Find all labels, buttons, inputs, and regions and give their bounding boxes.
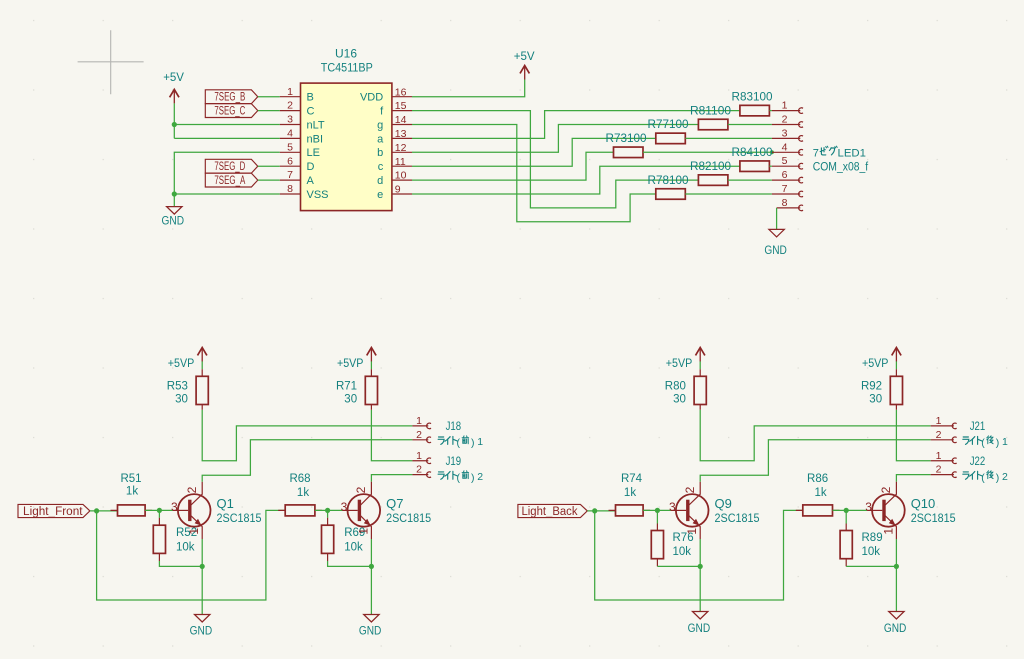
svg-text:+5VP: +5VP: [337, 356, 364, 370]
svg-text:d: d: [377, 175, 383, 187]
power +5VP (R53): [168, 348, 207, 371]
ground (Q1): [190, 615, 213, 638]
wire R74 to Q9 base: [643, 509, 671, 511]
wire Q1 emitter to GND: [201, 539, 203, 615]
svg-text:R80: R80: [665, 381, 686, 393]
wire R68 to Q7 base: [315, 509, 343, 511]
svg-text:1: 1: [1002, 436, 1008, 448]
connector J22 value (Japanese light-back 2): [963, 471, 1008, 484]
junction Light_Front node: [94, 508, 99, 513]
svg-text:R92: R92: [861, 381, 882, 393]
svg-text:GND: GND: [884, 623, 907, 635]
junction Q10 emitter: [894, 564, 899, 569]
junction Q1 emitter: [200, 564, 205, 569]
svg-text:R81100: R81100: [690, 105, 731, 117]
svg-text:+5V: +5V: [514, 49, 535, 63]
svg-text:LED1: LED1: [838, 147, 867, 159]
U16 pin 16 (VDD): [360, 86, 412, 103]
connector J21 pin 2: [931, 429, 957, 443]
resistor R80 30: [699, 361, 701, 412]
wire Light_Back bus to R86: [595, 510, 803, 600]
svg-text:30: 30: [673, 393, 686, 405]
svg-text:Light_Front: Light_Front: [23, 506, 83, 518]
svg-text:e: e: [377, 189, 383, 201]
wire R52 branch: [158, 510, 160, 517]
connector J19 pin 2: [412, 464, 431, 478]
wire R89 to emitter row: [846, 565, 896, 567]
resistor R82 value 100: [690, 161, 731, 185]
svg-text:7SEG_A: 7SEG_A: [214, 175, 245, 187]
svg-text:1: 1: [477, 436, 483, 448]
svg-text:Q10: Q10: [911, 496, 936, 511]
svg-text:1k: 1k: [126, 486, 138, 498]
svg-text:2: 2: [936, 464, 942, 476]
wire R86 to Q10 base: [833, 509, 868, 511]
svg-text:R86: R86: [807, 473, 828, 485]
svg-text:7SEG_B: 7SEG_B: [214, 91, 245, 103]
svg-text:16: 16: [395, 86, 407, 98]
svg-text:GND: GND: [764, 245, 787, 257]
svg-text:TC4511BP: TC4511BP: [321, 63, 373, 75]
svg-text:8: 8: [287, 183, 293, 195]
svg-text:R78100: R78100: [648, 175, 689, 187]
svg-text:7: 7: [287, 169, 293, 181]
svg-text:J21: J21: [970, 419, 986, 433]
U16 pin 6 (D): [280, 155, 315, 173]
svg-text:2: 2: [477, 471, 483, 483]
global label Light_Front: [18, 504, 90, 517]
wire R78 to conn pin7: [685, 193, 772, 195]
svg-text:3: 3: [287, 114, 293, 126]
connector J21 value (Japanese light-back 1): [963, 436, 1008, 449]
resistor R89 10k: [840, 524, 883, 567]
connector J21 pin 1: [931, 415, 957, 429]
wire R82 to conn pin6: [728, 179, 772, 181]
svg-text:D: D: [307, 161, 315, 173]
wire LE/VSS to GND: [174, 152, 279, 206]
ground (Q10): [884, 612, 907, 635]
svg-text:2SC1815: 2SC1815: [386, 511, 431, 525]
wire Light_Back to R74: [587, 510, 615, 512]
svg-text:1: 1: [416, 415, 422, 427]
svg-text:A: A: [307, 175, 315, 187]
resistor R92 30: [895, 361, 897, 412]
svg-text:1k: 1k: [297, 487, 309, 499]
wire Q10 emitter to GND: [895, 539, 897, 612]
global label 7SEG_B: [205, 90, 257, 104]
ground (Q9): [688, 612, 711, 635]
svg-text:): ): [471, 437, 475, 449]
wire Q10 collector to J22 pin2: [896, 475, 930, 482]
U16 pin 12 (b): [377, 142, 412, 159]
junction Light_Back node: [592, 508, 597, 513]
power +5VP (R80): [666, 348, 705, 371]
wire R51 to Q1 base: [145, 509, 173, 511]
junction R74/R76: [655, 508, 660, 513]
U16 pin 10 (d): [377, 170, 412, 187]
junction R51/R52: [157, 508, 162, 513]
svg-text:2SC1815: 2SC1815: [217, 511, 262, 525]
svg-text:GND: GND: [359, 625, 382, 637]
connector J19 pin 1: [412, 450, 431, 464]
svg-text:COM_x08_f: COM_x08_f: [813, 162, 869, 174]
svg-text:30: 30: [344, 393, 357, 405]
svg-text:4: 4: [287, 128, 293, 140]
wire R89 branch: [845, 510, 847, 523]
svg-text:+5VP: +5VP: [862, 356, 889, 370]
wire R80 to J21 pin1: [700, 412, 931, 461]
op-amp/IC U16 TC4511BP body: [301, 49, 392, 211]
global label Light_Back: [518, 504, 587, 517]
U16 pin 15 (f): [380, 100, 412, 117]
wire R69 branch: [327, 510, 329, 517]
wire R83 to conn pin1: [769, 110, 772, 112]
wire R92 to J22 pin1: [896, 412, 930, 461]
svg-text:J19: J19: [446, 454, 462, 468]
transistor Q10 2SC1815: [865, 482, 956, 539]
svg-text:+5VP: +5VP: [168, 356, 195, 370]
transistor Q7 2SC1815: [341, 482, 432, 539]
svg-text:15: 15: [395, 100, 407, 112]
wire R71 to J19 pin1: [371, 412, 412, 461]
svg-text:6: 6: [782, 169, 788, 181]
svg-text:10k: 10k: [673, 546, 692, 558]
svg-text:): ): [996, 437, 1000, 449]
svg-text:1: 1: [881, 528, 895, 535]
wire Q9 collector to J21 pin2: [700, 440, 931, 482]
svg-text:7SEG_D: 7SEG_D: [214, 161, 245, 173]
svg-text:R77100: R77100: [648, 119, 689, 131]
svg-text:R74: R74: [621, 473, 643, 485]
global label 7SEG_C: [205, 104, 257, 118]
U16 pin 9 (e): [377, 184, 412, 201]
svg-text:13: 13: [395, 128, 407, 140]
svg-text:10k: 10k: [344, 541, 363, 553]
svg-text:2SC1815: 2SC1815: [715, 511, 760, 525]
ground (Q7): [359, 615, 382, 638]
svg-text:J22: J22: [970, 454, 986, 468]
svg-text:b: b: [377, 147, 383, 159]
resistor R84 value 100: [732, 147, 773, 171]
svg-text:2: 2: [354, 486, 368, 493]
U16 pin 14 (g): [377, 114, 412, 131]
svg-text:7: 7: [813, 147, 819, 159]
svg-text:1: 1: [287, 86, 293, 98]
wire +5V to pins 3,4: [174, 103, 279, 138]
wire b(12) to R81 row: [412, 125, 698, 153]
resistor R74 1k: [609, 509, 651, 511]
connector J18 pin 1: [412, 415, 431, 429]
svg-text:10: 10: [395, 170, 407, 182]
svg-text:2: 2: [936, 429, 942, 441]
svg-text:R89: R89: [862, 532, 883, 544]
junction R86/R89: [844, 508, 849, 513]
svg-text:B: B: [307, 92, 314, 104]
svg-text:1: 1: [685, 528, 699, 535]
wire R81 to conn pin2: [728, 124, 772, 126]
resistor R83 value 100: [732, 91, 773, 115]
svg-text:Light_Back: Light_Back: [522, 506, 578, 518]
wire R76 branch: [656, 510, 658, 523]
svg-text:30: 30: [175, 393, 188, 405]
svg-text:VSS: VSS: [307, 189, 329, 201]
junction +5V/nLT: [172, 122, 177, 127]
wire R84 to conn pin5: [769, 165, 772, 167]
svg-text:2: 2: [416, 464, 422, 476]
svg-text:10k: 10k: [862, 546, 881, 558]
svg-text:nLT: nLT: [307, 119, 325, 131]
power +5VP (R92): [862, 348, 901, 371]
U16 pin 7 (A): [280, 169, 315, 187]
resistor R86 1k: [796, 509, 840, 511]
svg-text:3: 3: [171, 500, 178, 514]
svg-text:R84100: R84100: [732, 147, 773, 159]
wire R52 to emitter row: [159, 561, 202, 566]
junction R68/R69: [325, 508, 330, 513]
svg-text:2: 2: [287, 100, 293, 112]
U16 pin 3 (nLT): [280, 114, 325, 132]
U16 pin 13 (a): [377, 128, 412, 145]
svg-text:nBI: nBI: [307, 133, 324, 145]
svg-text:R68: R68: [289, 473, 310, 485]
svg-text:6: 6: [287, 155, 293, 167]
wire e(9) to R84 row: [412, 166, 740, 194]
svg-text:a: a: [377, 133, 384, 145]
svg-text:9: 9: [395, 184, 401, 196]
connector pin 4: [772, 141, 803, 155]
svg-text:Q7: Q7: [386, 496, 403, 511]
svg-text:2: 2: [1002, 471, 1008, 483]
wire a(13) to R83 row: [412, 111, 740, 139]
svg-text:1k: 1k: [624, 487, 636, 499]
power +5V (right/VDD): [514, 49, 535, 80]
global label 7SEG_A: [205, 173, 257, 187]
U16 pin 11 (c): [378, 156, 412, 173]
svg-text:1k: 1k: [815, 487, 827, 499]
wire VDD pin16 to +5V: [412, 80, 525, 97]
wire Light_Front bus to R68: [97, 510, 286, 600]
svg-text:2: 2: [879, 486, 893, 493]
sheet origin crosshair: [78, 30, 144, 94]
U16 pin 1 (B): [280, 86, 314, 104]
svg-text:Q9: Q9: [715, 496, 732, 511]
wire Q7 collector to J19 pin2: [371, 475, 412, 482]
svg-text:): ): [996, 472, 1000, 484]
svg-text:10k: 10k: [176, 541, 195, 553]
resistor R71 30: [370, 361, 372, 412]
wire R77 to conn pin3: [685, 137, 772, 139]
wire g(14) to R78 row: [412, 125, 656, 222]
resistor R69 10k: [322, 518, 366, 561]
svg-text:GND: GND: [190, 625, 213, 637]
svg-text:(: (: [981, 437, 985, 449]
transistor Q1 2SC1815: [171, 482, 262, 539]
wire f(15) to R82 row: [412, 111, 698, 208]
svg-text:VDD: VDD: [360, 92, 383, 104]
connector pin 6: [772, 169, 803, 183]
svg-text:g: g: [377, 119, 383, 131]
wire Q9 emitter to GND: [699, 539, 701, 612]
transistor Q9 2SC1815: [669, 482, 760, 539]
svg-text:7: 7: [782, 183, 788, 195]
svg-text:R82100: R82100: [690, 161, 731, 173]
svg-text:R51: R51: [120, 473, 141, 485]
connector J22 pin 1: [931, 450, 957, 464]
svg-text:+5VP: +5VP: [666, 356, 693, 370]
resistor R51 1k: [111, 509, 153, 511]
connector pin 1: [772, 100, 803, 114]
ground (connector pin8): [764, 229, 787, 257]
svg-text:(: (: [457, 472, 461, 484]
connector reference 7segLED1 (Japanese): [813, 146, 866, 159]
U16 pin 2 (C): [280, 100, 315, 118]
svg-text:C: C: [307, 106, 315, 118]
wire 7SEG_D to pin6: [258, 165, 280, 167]
connector pin 8: [777, 197, 803, 211]
svg-text:R73100: R73100: [606, 133, 647, 145]
svg-text:3: 3: [341, 500, 348, 514]
global label 7SEG_D: [205, 159, 257, 173]
U16 pin 5 (LE): [280, 141, 320, 159]
svg-text:GND: GND: [162, 216, 185, 228]
svg-text:R83100: R83100: [732, 91, 773, 103]
svg-text:1: 1: [187, 528, 201, 535]
svg-text:2: 2: [185, 486, 199, 493]
svg-text:5: 5: [287, 141, 293, 153]
svg-text:1: 1: [782, 100, 788, 112]
svg-text:J18: J18: [446, 419, 462, 433]
wire Light_Front to R51: [90, 510, 118, 512]
power +5VP (R71): [337, 348, 376, 371]
power +5V (left): [163, 70, 184, 103]
svg-text:1: 1: [416, 450, 422, 462]
svg-text:3: 3: [865, 500, 872, 514]
svg-text:2: 2: [683, 486, 697, 493]
svg-text:R53: R53: [167, 381, 188, 393]
svg-text:3: 3: [669, 500, 676, 514]
svg-text:2SC1815: 2SC1815: [911, 511, 956, 525]
resistor R81 value 100: [690, 105, 731, 129]
wire d(10) to R73 row: [412, 152, 614, 180]
U16 pin 4 (nBI): [280, 128, 323, 146]
resistor R73 value 100: [606, 133, 647, 157]
junction VSS/GND: [172, 191, 177, 196]
svg-text:14: 14: [395, 114, 407, 126]
svg-text:1: 1: [936, 415, 942, 427]
connector J22 pin 2: [931, 464, 957, 478]
wire R53 to J18 pin1: [202, 412, 412, 461]
svg-text:(: (: [981, 472, 985, 484]
svg-text:4: 4: [782, 141, 788, 153]
wire R69 to emitter row: [328, 561, 372, 566]
connector pin 7: [772, 183, 803, 197]
wire c(11) to R77 row: [412, 138, 656, 166]
wire 7SEG_C to pin2: [258, 110, 280, 112]
svg-text:): ): [471, 472, 475, 484]
junction Q9 emitter: [698, 564, 703, 569]
svg-text:R71: R71: [336, 381, 357, 393]
resistor R68 1k: [278, 509, 322, 511]
svg-text:1: 1: [936, 450, 942, 462]
svg-text:U16: U16: [335, 49, 357, 61]
connector J19 value (Japanese light-front 2): [438, 471, 483, 484]
wire Q7 emitter to GND: [370, 539, 372, 615]
svg-text:1: 1: [356, 528, 370, 535]
connector pin 2: [772, 114, 803, 128]
wire Q1 collector to J18 pin2: [202, 440, 412, 482]
connector pin 3: [772, 127, 803, 141]
svg-text:(: (: [457, 437, 461, 449]
resistor R78 value 100: [648, 175, 689, 199]
svg-text:3: 3: [782, 127, 788, 139]
svg-text:12: 12: [395, 142, 407, 154]
connector J18 value (Japanese light-front 1): [438, 436, 483, 449]
wire R73 to conn pin4: [643, 151, 772, 153]
resistor R76 10k: [651, 524, 693, 567]
wire conn pin8 to GND: [776, 208, 778, 230]
svg-text:8: 8: [782, 197, 788, 209]
svg-text:30: 30: [869, 393, 882, 405]
U16 pin 8 (VSS): [280, 183, 329, 201]
svg-text:LE: LE: [307, 147, 320, 159]
connector J18 pin 2: [412, 429, 431, 443]
svg-text:11: 11: [395, 156, 406, 168]
wire 7SEG_A to pin7: [258, 179, 280, 181]
svg-text:Q1: Q1: [217, 496, 234, 511]
svg-text:c: c: [378, 161, 384, 173]
svg-text:7SEG_C: 7SEG_C: [214, 105, 245, 117]
wire R76 to emitter row: [657, 565, 700, 567]
resistor R52 10k: [153, 518, 197, 561]
svg-text:GND: GND: [688, 623, 711, 635]
resistor R53 30: [201, 361, 203, 412]
wire 7SEG_B to pin1: [258, 96, 280, 98]
resistor R77 value 100: [648, 119, 689, 143]
ground (left of IC): [162, 207, 185, 228]
connector pin 5: [772, 155, 803, 169]
svg-text:5: 5: [782, 155, 788, 167]
svg-text:2: 2: [416, 429, 422, 441]
junction Q7 emitter: [369, 564, 374, 569]
svg-text:2: 2: [782, 114, 788, 126]
svg-text:+5V: +5V: [163, 70, 184, 84]
